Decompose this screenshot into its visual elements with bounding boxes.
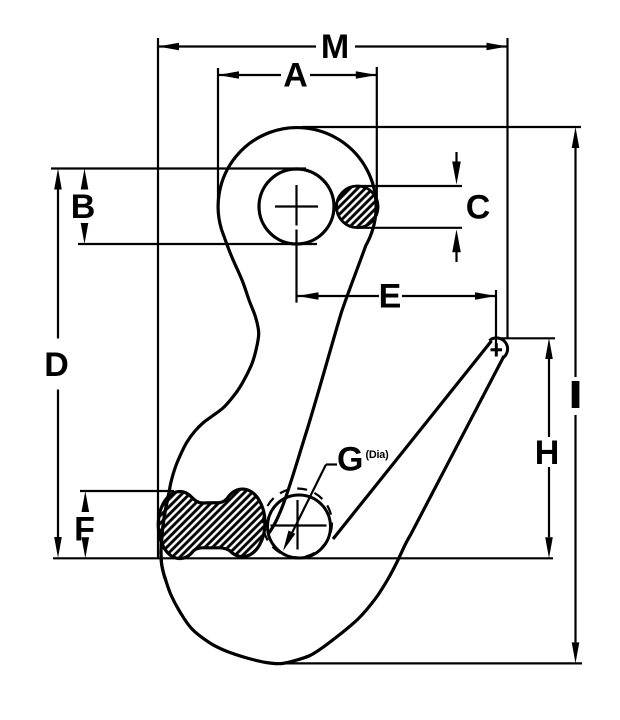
svg-text:B: B [71,188,96,226]
tip arm upper (inner) edge [333,341,492,539]
hook back cross-section (hatched dog-bone) [158,489,265,558]
eye hole inner circle [259,169,334,244]
seat crosshair [271,500,327,550]
seat circle (solid) [268,495,331,558]
svg-text:G: G [337,441,363,479]
dimension D [57,189,59,537]
tip boss crosshair [491,343,503,356]
svg-text:(Dia): (Dia) [366,449,390,461]
dimension E [298,290,497,344]
dimension B [51,169,317,245]
bowl outline overlay across hatched section [161,495,169,581]
dimension C [356,152,462,262]
pin cross-section (hatched circle) [337,186,379,228]
eye centerline crosshair [275,185,318,303]
dimension I [276,127,582,663]
hook body: top eye boss outer arc [218,128,376,246]
tip boss cap arc [489,338,507,359]
dimension F [53,491,553,558]
body inner right edge from pin down to seat [269,245,366,533]
svg-text:D: D [44,346,69,384]
svg-text:F: F [74,511,95,549]
svg-text:H: H [535,434,560,472]
svg-text:A: A [283,57,308,95]
dimension H [492,338,556,537]
svg-text:M: M [321,28,349,66]
svg-text:C: C [466,189,491,227]
hook body left edge S-curve into bowl and up to tip arm [161,230,504,664]
G diameter dashed circle [263,489,332,558]
svg-text:E: E [379,278,402,316]
dimension A [218,67,377,205]
dimension M [158,38,508,559]
